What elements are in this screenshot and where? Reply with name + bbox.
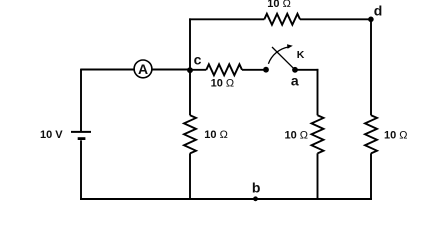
wire: bottom rail (node b rail) xyxy=(80,198,372,200)
node c dot xyxy=(187,67,193,73)
switch K throw arrow arc xyxy=(268,47,288,64)
svg-text:10 Ω: 10 Ω xyxy=(267,0,291,10)
svg-text:A: A xyxy=(138,61,148,77)
svg-text:c: c xyxy=(194,52,202,68)
node d dot xyxy=(368,17,374,23)
resistor R4 10ohm middle vertical xyxy=(312,115,324,153)
resistor R2 10ohm top horizontal xyxy=(264,14,300,25)
resistor R3 10ohm middle horizontal xyxy=(206,64,242,75)
wire: ammeter branch xyxy=(81,69,190,71)
svg-text:10 V: 10 V xyxy=(40,129,63,141)
wire: middle column upper lead xyxy=(317,69,319,115)
node a dot xyxy=(292,67,298,73)
wire: top rail right segment xyxy=(300,18,371,20)
wire: a to middle column corner xyxy=(295,69,318,71)
wire: d column lower lead xyxy=(370,153,372,200)
wire: top rail left segment xyxy=(189,18,264,20)
ammeter A body xyxy=(134,60,152,78)
wire: battery top lead xyxy=(80,69,82,131)
svg-text:a: a xyxy=(291,72,299,88)
wire: c column lower lead xyxy=(189,153,191,200)
svg-text:10 Ω: 10 Ω xyxy=(285,129,309,141)
switch K blade xyxy=(272,47,295,70)
wire: c column upper (c to top rail) xyxy=(189,18,191,70)
wire: middle column lower lead xyxy=(317,153,319,200)
wire: c column lead to R1 xyxy=(189,69,191,115)
svg-text:d: d xyxy=(374,3,383,19)
svg-text:b: b xyxy=(252,179,261,195)
node b dot xyxy=(253,196,258,201)
battery V1: short (-) plate xyxy=(78,137,86,140)
wire: R3 to switch left contact xyxy=(242,69,266,71)
wire: c to R3 xyxy=(190,69,206,71)
svg-text:10 Ω: 10 Ω xyxy=(384,129,408,141)
svg-text:10 Ω: 10 Ω xyxy=(204,129,228,141)
svg-text:K: K xyxy=(297,49,305,61)
switch K throw arrowhead xyxy=(287,44,293,48)
battery V1: long (+) plate xyxy=(71,131,91,133)
wire: battery bottom lead xyxy=(80,140,82,200)
resistor R1 10ohm left vertical xyxy=(184,115,196,153)
wire: d column upper lead xyxy=(370,18,372,115)
svg-text:10 Ω: 10 Ω xyxy=(211,78,235,90)
switch K left contact dot xyxy=(263,67,269,73)
resistor R5 10ohm right vertical xyxy=(365,115,377,153)
